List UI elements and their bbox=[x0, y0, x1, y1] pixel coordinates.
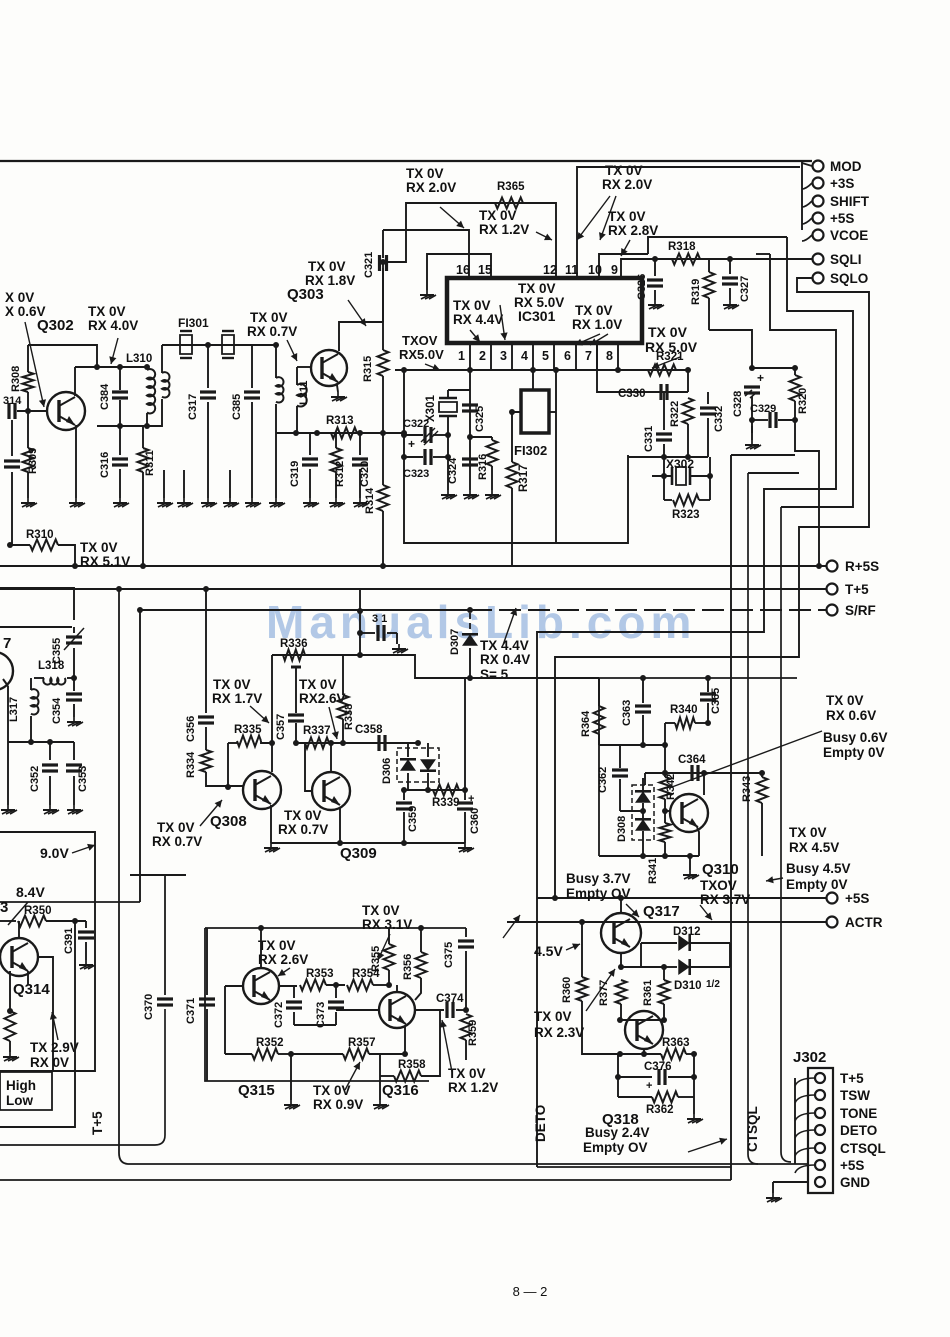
svg-text:R365: R365 bbox=[497, 181, 525, 193]
svg-text:Q316: Q316 bbox=[382, 1082, 419, 1099]
svg-text:R336: R336 bbox=[280, 638, 308, 650]
svg-text:RX 1.0V: RX 1.0V bbox=[572, 317, 622, 332]
svg-text:R316: R316 bbox=[477, 454, 489, 480]
svg-text:TX 0V: TX 0V bbox=[518, 281, 556, 296]
svg-text:9: 9 bbox=[611, 263, 618, 277]
svg-text:5: 5 bbox=[542, 349, 549, 363]
svg-text:R318: R318 bbox=[668, 241, 696, 253]
svg-text:C319: C319 bbox=[289, 461, 301, 487]
svg-text:TX 0V: TX 0V bbox=[479, 208, 517, 223]
svg-text:RX 3.7V: RX 3.7V bbox=[700, 892, 750, 907]
svg-text:Empty 0V: Empty 0V bbox=[786, 877, 848, 892]
svg-text:+: + bbox=[757, 371, 764, 385]
svg-text:11: 11 bbox=[565, 263, 578, 277]
svg-text:C384: C384 bbox=[99, 383, 111, 410]
svg-text:Low: Low bbox=[6, 1093, 33, 1108]
svg-text:RX 4.5V: RX 4.5V bbox=[789, 840, 839, 855]
svg-text:RX 2.0V: RX 2.0V bbox=[602, 177, 652, 192]
svg-text:Empty OV: Empty OV bbox=[583, 1140, 648, 1155]
svg-text:R317: R317 bbox=[518, 465, 530, 493]
svg-text:R339: R339 bbox=[432, 797, 460, 809]
svg-text:RX 0.7V: RX 0.7V bbox=[278, 822, 328, 837]
svg-text:C320: C320 bbox=[359, 461, 371, 487]
svg-text:TX 0V: TX 0V bbox=[308, 259, 346, 274]
svg-text:R309: R309 bbox=[27, 448, 39, 474]
svg-text:TXOV: TXOV bbox=[700, 878, 737, 893]
svg-text:RX 0.6V: RX 0.6V bbox=[826, 708, 876, 723]
svg-text:6: 6 bbox=[564, 349, 571, 363]
svg-text:R335: R335 bbox=[234, 724, 262, 736]
svg-text:R334: R334 bbox=[185, 751, 197, 778]
svg-text:TX 0V: TX 0V bbox=[605, 163, 643, 178]
svg-text:+: + bbox=[408, 437, 415, 451]
svg-text:D306: D306 bbox=[381, 758, 393, 784]
svg-text:C331: C331 bbox=[643, 426, 655, 452]
svg-text:R310: R310 bbox=[26, 529, 54, 541]
svg-text:C353: C353 bbox=[77, 766, 89, 792]
svg-text:J302: J302 bbox=[793, 1049, 826, 1066]
svg-text:D312: D312 bbox=[673, 926, 701, 938]
svg-text:R353: R353 bbox=[306, 968, 334, 980]
svg-text:C375: C375 bbox=[443, 942, 455, 968]
svg-text:RX 2.0V: RX 2.0V bbox=[406, 180, 456, 195]
svg-text:RX5.0V: RX5.0V bbox=[399, 347, 444, 362]
svg-text:+3S: +3S bbox=[830, 176, 854, 191]
svg-text:S/RF: S/RF bbox=[845, 603, 876, 618]
svg-text:R360: R360 bbox=[561, 977, 573, 1003]
svg-text:C370: C370 bbox=[143, 994, 155, 1020]
svg-text:TX 2.9V: TX 2.9V bbox=[30, 1040, 79, 1055]
svg-text:8 — 2: 8 — 2 bbox=[513, 1284, 548, 1299]
svg-text:7: 7 bbox=[3, 635, 11, 652]
svg-text:8: 8 bbox=[606, 349, 613, 363]
svg-text:+5S: +5S bbox=[840, 1158, 864, 1173]
svg-text:1/2: 1/2 bbox=[706, 979, 720, 990]
svg-text:RX 2.8V: RX 2.8V bbox=[608, 223, 658, 238]
svg-text:R352: R352 bbox=[256, 1037, 284, 1049]
svg-text:RX 0.7V: RX 0.7V bbox=[247, 324, 297, 339]
svg-text:RX 2.6V: RX 2.6V bbox=[258, 952, 308, 967]
svg-text:C352: C352 bbox=[29, 766, 41, 792]
svg-text:High: High bbox=[6, 1078, 36, 1093]
svg-text:C354: C354 bbox=[51, 697, 63, 724]
svg-text:RX2.6V: RX2.6V bbox=[299, 691, 346, 706]
svg-text:RX 1.2V: RX 1.2V bbox=[479, 222, 529, 237]
svg-text:T+5: T+5 bbox=[90, 1111, 105, 1135]
svg-text:4.5V: 4.5V bbox=[534, 943, 563, 959]
svg-text:C360: C360 bbox=[469, 808, 481, 834]
svg-text:T+5: T+5 bbox=[840, 1071, 864, 1086]
svg-text:Q310: Q310 bbox=[702, 861, 739, 878]
svg-text:C356: C356 bbox=[185, 716, 197, 742]
svg-text:TX 0V: TX 0V bbox=[88, 304, 126, 319]
svg-text:TX 0V: TX 0V bbox=[608, 209, 646, 224]
svg-text:R363: R363 bbox=[662, 1037, 690, 1049]
svg-text:RX 4.0V: RX 4.0V bbox=[88, 318, 138, 333]
svg-text:C365: C365 bbox=[710, 688, 722, 714]
svg-text:TX 0V: TX 0V bbox=[789, 825, 827, 840]
svg-text:R315: R315 bbox=[362, 356, 374, 382]
svg-text:Q309: Q309 bbox=[340, 845, 377, 862]
svg-text:RX 5.1V: RX 5.1V bbox=[80, 554, 130, 569]
svg-text:TX 0V: TX 0V bbox=[258, 938, 296, 953]
svg-text:RX 1.2V: RX 1.2V bbox=[448, 1080, 498, 1095]
svg-text:C358: C358 bbox=[355, 724, 383, 736]
svg-text:Q302: Q302 bbox=[37, 317, 74, 334]
svg-text:3: 3 bbox=[0, 899, 8, 916]
svg-text:C329: C329 bbox=[750, 403, 776, 415]
svg-text:TX 0V: TX 0V bbox=[448, 1066, 486, 1081]
svg-text:R+5S: R+5S bbox=[845, 559, 879, 574]
svg-text:R361: R361 bbox=[642, 980, 654, 1006]
svg-text:R321: R321 bbox=[656, 351, 684, 363]
svg-text:R357: R357 bbox=[348, 1037, 376, 1049]
svg-text:RX 4.4V: RX 4.4V bbox=[453, 312, 503, 327]
svg-text:TX 0V: TX 0V bbox=[80, 540, 118, 555]
svg-text:Empty 0V: Empty 0V bbox=[823, 745, 885, 760]
svg-text:+5S: +5S bbox=[845, 891, 869, 906]
svg-text:TX 0V: TX 0V bbox=[534, 1009, 572, 1024]
svg-text:R358: R358 bbox=[398, 1059, 426, 1071]
svg-text:RX 0.7V: RX 0.7V bbox=[152, 834, 202, 849]
svg-text:R320: R320 bbox=[797, 388, 809, 414]
svg-text:ACTR: ACTR bbox=[845, 915, 883, 930]
svg-text:Q308: Q308 bbox=[210, 813, 247, 830]
svg-text:RX 2.3V: RX 2.3V bbox=[534, 1025, 584, 1040]
svg-text:TX 0V: TX 0V bbox=[453, 298, 491, 313]
svg-text:TX 0V: TX 0V bbox=[157, 820, 195, 835]
svg-text:RX 0.9V: RX 0.9V bbox=[313, 1097, 363, 1112]
svg-text:CTSQL: CTSQL bbox=[745, 1106, 760, 1152]
svg-text:SHIFT: SHIFT bbox=[830, 194, 870, 209]
svg-text:C374: C374 bbox=[436, 993, 464, 1005]
svg-text:Busy 2.4V: Busy 2.4V bbox=[585, 1125, 650, 1140]
svg-text:Q315: Q315 bbox=[238, 1082, 275, 1099]
svg-text:C357: C357 bbox=[275, 714, 287, 740]
svg-text:C332: C332 bbox=[713, 406, 725, 432]
svg-text:RX 3.1V: RX 3.1V bbox=[362, 917, 412, 932]
svg-text:IC301: IC301 bbox=[518, 308, 556, 324]
svg-text:CTSQL: CTSQL bbox=[840, 1141, 886, 1156]
svg-text:TX 0V: TX 0V bbox=[575, 303, 613, 318]
svg-text:TSW: TSW bbox=[840, 1088, 870, 1103]
svg-text:C317: C317 bbox=[187, 394, 199, 420]
svg-text:C359: C359 bbox=[407, 806, 419, 832]
svg-text:L318: L318 bbox=[38, 660, 65, 672]
svg-text:314: 314 bbox=[3, 395, 22, 407]
svg-text:3 1: 3 1 bbox=[372, 613, 387, 625]
svg-text:10: 10 bbox=[588, 263, 602, 277]
svg-text:C316: C316 bbox=[99, 452, 111, 478]
svg-text:4: 4 bbox=[521, 349, 528, 363]
svg-text:R343: R343 bbox=[741, 776, 753, 802]
svg-text:R340: R340 bbox=[670, 704, 698, 716]
svg-text:C363: C363 bbox=[621, 700, 633, 726]
svg-text:DETO: DETO bbox=[840, 1123, 877, 1138]
svg-text:+5S: +5S bbox=[830, 211, 854, 226]
svg-text:L317: L317 bbox=[8, 697, 20, 722]
svg-text:SQLI: SQLI bbox=[830, 252, 862, 267]
svg-text:C321: C321 bbox=[363, 252, 375, 278]
svg-text:R341: R341 bbox=[647, 858, 659, 884]
svg-text:R313: R313 bbox=[326, 415, 354, 427]
svg-text:C371: C371 bbox=[185, 998, 197, 1024]
svg-text:R319: R319 bbox=[690, 279, 702, 305]
svg-text:R356: R356 bbox=[402, 954, 414, 980]
svg-text:3: 3 bbox=[500, 349, 507, 363]
svg-text:TXOV: TXOV bbox=[402, 333, 438, 348]
svg-text:TX 0V: TX 0V bbox=[250, 310, 288, 325]
svg-text:R359: R359 bbox=[467, 1020, 479, 1046]
svg-text:C391: C391 bbox=[63, 928, 75, 954]
svg-text:TX 0V: TX 0V bbox=[213, 677, 251, 692]
svg-text:7: 7 bbox=[585, 349, 592, 363]
svg-text:2: 2 bbox=[479, 349, 486, 363]
svg-text:8.4V: 8.4V bbox=[16, 884, 45, 900]
svg-text:L311: L311 bbox=[298, 381, 310, 405]
svg-text:15: 15 bbox=[478, 263, 492, 277]
svg-text:C385: C385 bbox=[231, 394, 243, 420]
svg-text:C364: C364 bbox=[678, 754, 706, 766]
svg-text:R338: R338 bbox=[343, 704, 355, 730]
svg-text:C376: C376 bbox=[644, 1061, 672, 1073]
svg-text:R342: R342 bbox=[665, 774, 677, 800]
svg-text:SQLO: SQLO bbox=[830, 271, 868, 286]
svg-text:12: 12 bbox=[543, 263, 557, 277]
svg-text:+: + bbox=[646, 1080, 652, 1092]
svg-text:FI301: FI301 bbox=[178, 316, 209, 330]
svg-text:Busy 0.6V: Busy 0.6V bbox=[823, 730, 888, 745]
svg-text:R314: R314 bbox=[364, 487, 376, 514]
svg-text:RX 0.4V: RX 0.4V bbox=[480, 652, 530, 667]
svg-text:C328: C328 bbox=[732, 391, 744, 417]
svg-text:GND: GND bbox=[840, 1175, 870, 1190]
svg-text:R350: R350 bbox=[24, 905, 52, 917]
svg-text:C362: C362 bbox=[597, 767, 609, 793]
svg-text:R377: R377 bbox=[598, 980, 610, 1006]
svg-text:R322: R322 bbox=[669, 401, 681, 427]
svg-text:R364: R364 bbox=[580, 710, 592, 737]
svg-text:C323: C323 bbox=[403, 468, 429, 480]
svg-text:MOD: MOD bbox=[830, 159, 862, 174]
svg-text:Q314: Q314 bbox=[13, 981, 50, 998]
svg-text:VCOE: VCOE bbox=[830, 228, 868, 243]
svg-text:TX 0V: TX 0V bbox=[284, 808, 322, 823]
svg-text:Q303: Q303 bbox=[287, 286, 324, 303]
svg-text:C324: C324 bbox=[447, 457, 459, 484]
svg-text:TX 0V: TX 0V bbox=[362, 903, 400, 918]
svg-text:Q317: Q317 bbox=[643, 903, 680, 920]
svg-text:C327: C327 bbox=[739, 276, 751, 302]
svg-text:TX 0V: TX 0V bbox=[299, 677, 337, 692]
svg-text:R312: R312 bbox=[334, 461, 346, 487]
svg-text:16: 16 bbox=[456, 263, 470, 277]
svg-text:L310: L310 bbox=[126, 353, 152, 365]
svg-text:Busy 3.7V: Busy 3.7V bbox=[566, 871, 631, 886]
svg-text:TX 0V: TX 0V bbox=[406, 166, 444, 181]
svg-text:TX 0V: TX 0V bbox=[648, 324, 688, 340]
svg-text:T+5: T+5 bbox=[845, 582, 869, 597]
svg-text:X 0V: X 0V bbox=[5, 290, 34, 305]
svg-text:TX 0V: TX 0V bbox=[826, 693, 864, 708]
svg-text:R337: R337 bbox=[303, 725, 331, 737]
svg-text:R323: R323 bbox=[672, 509, 700, 521]
svg-text:C330: C330 bbox=[618, 388, 646, 400]
svg-text:S= 5: S= 5 bbox=[480, 667, 509, 682]
svg-text:D308: D308 bbox=[616, 816, 628, 842]
svg-text:C372: C372 bbox=[273, 1002, 285, 1028]
svg-text:R308: R308 bbox=[10, 366, 22, 392]
svg-text:RX 0V: RX 0V bbox=[30, 1055, 69, 1070]
svg-text:R311: R311 bbox=[144, 450, 156, 476]
svg-text:R362: R362 bbox=[646, 1104, 674, 1116]
svg-text:1: 1 bbox=[458, 349, 465, 363]
svg-text:D310: D310 bbox=[674, 980, 702, 992]
svg-text:TONE: TONE bbox=[840, 1106, 877, 1121]
svg-text:FI302: FI302 bbox=[514, 443, 547, 458]
svg-text:Busy 4.5V: Busy 4.5V bbox=[786, 861, 851, 876]
svg-text:9.0V: 9.0V bbox=[40, 845, 69, 861]
svg-text:R355: R355 bbox=[370, 946, 382, 972]
svg-text:X302: X302 bbox=[666, 457, 694, 471]
svg-text:DETO: DETO bbox=[533, 1105, 548, 1142]
svg-text:RX 1.7V: RX 1.7V bbox=[212, 691, 262, 706]
svg-text:D307: D307 bbox=[449, 629, 461, 655]
svg-text:TX 0V: TX 0V bbox=[313, 1083, 351, 1098]
svg-text:C325: C325 bbox=[474, 406, 486, 432]
